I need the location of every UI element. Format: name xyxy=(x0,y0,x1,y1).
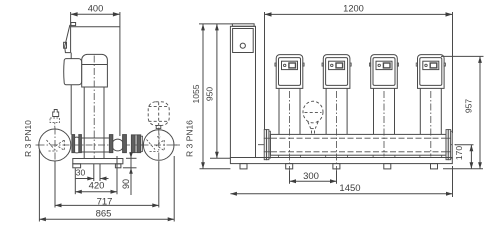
svg-text:865: 865 xyxy=(96,208,112,219)
pump column side view xyxy=(83,87,85,159)
dashed vessel front view xyxy=(303,101,323,134)
dim 30 extensions xyxy=(93,164,95,181)
dim 950 xyxy=(216,24,218,158)
dim 1055 xyxy=(202,24,204,169)
dim 30 xyxy=(75,178,94,180)
dim 1450 right extension xyxy=(452,166,454,197)
dimension 400 line xyxy=(71,13,120,15)
feet xyxy=(240,164,247,169)
suction pipe axis centerline xyxy=(36,144,181,146)
dim 957 extension top xyxy=(441,55,484,57)
ball valve sphere xyxy=(112,139,124,151)
motor M1 side view xyxy=(82,54,108,87)
svg-text:1055: 1055 xyxy=(191,84,201,103)
dashed check valve symbol in right circle xyxy=(147,134,165,152)
svg-text:957: 957 xyxy=(464,99,474,113)
svg-text:300: 300 xyxy=(303,171,319,182)
svg-text:1450: 1450 xyxy=(339,183,360,194)
top extension line to cabinet xyxy=(199,23,232,25)
pump 2 xyxy=(322,55,351,184)
pump 3 xyxy=(369,55,398,158)
dimension 1200 line xyxy=(265,13,453,15)
dim 300 xyxy=(290,180,337,182)
cabinet top plate line xyxy=(71,26,120,28)
control cabinet side view xyxy=(70,12,72,53)
svg-text:1200: 1200 xyxy=(343,4,364,14)
dim 420 xyxy=(75,191,117,193)
base frame front xyxy=(230,158,452,164)
dim 717 xyxy=(55,204,159,206)
cabinet lock circle xyxy=(240,43,245,48)
svg-text:170: 170 xyxy=(454,146,464,160)
svg-text:R 3 PN16: R 3 PN16 xyxy=(184,120,194,157)
floor extension right xyxy=(443,168,483,170)
manifold left end flanges xyxy=(264,130,266,160)
manifold inner bore dashed lines xyxy=(271,137,446,139)
dim 420 extensions xyxy=(74,168,76,194)
base-top extension left xyxy=(210,157,230,159)
dim 865 right extension xyxy=(173,156,175,222)
vessel connector xyxy=(156,126,161,129)
control cabinet front view xyxy=(230,26,255,157)
dim 865 left extension xyxy=(38,150,40,222)
suction flange circle R3 PN10 xyxy=(39,129,71,161)
svg-text:400: 400 xyxy=(88,4,104,14)
svg-text:717: 717 xyxy=(97,196,113,207)
pump centerline xyxy=(93,56,95,159)
floor line segment xyxy=(123,167,137,169)
svg-text:90: 90 xyxy=(121,179,131,189)
dim 170 extension top xyxy=(455,144,474,146)
cabinet mounting pole xyxy=(70,53,72,135)
discharge center extension xyxy=(158,161,160,207)
1200 right extension xyxy=(452,12,454,133)
cabinet knob xyxy=(64,42,67,48)
dim 170 xyxy=(470,145,472,169)
extension line right of 400 xyxy=(119,12,121,136)
manifold body xyxy=(270,134,446,155)
flange set C xyxy=(131,135,135,153)
suction pipe through column xyxy=(81,137,109,139)
manifold axis centerline xyxy=(258,144,457,146)
dim 300 extensions xyxy=(289,171,291,184)
dim 957 xyxy=(479,56,481,168)
suction center extension xyxy=(54,161,56,208)
manifold right end flanges xyxy=(446,130,448,160)
dashed diaphragm vessel above discharge xyxy=(148,102,169,126)
foot left xyxy=(73,164,81,168)
flange pair B xyxy=(109,135,112,153)
svg-text:R 3 PN10: R 3 PN10 xyxy=(23,120,33,157)
dim 1450 xyxy=(230,193,452,195)
foot right xyxy=(115,164,121,168)
dim 865 xyxy=(39,218,174,220)
flange pair A xyxy=(72,135,75,153)
motor terminal box xyxy=(64,59,82,85)
svg-text:30: 30 xyxy=(76,167,86,177)
floor extension left xyxy=(200,168,231,170)
pump 4 xyxy=(416,55,445,158)
dim 90 vertical xyxy=(130,152,132,195)
pressure sensor symbol xyxy=(53,110,59,117)
cabinet mounting pole front xyxy=(264,12,266,158)
dashed check valve symbol in left circle xyxy=(47,140,65,151)
svg-text:420: 420 xyxy=(89,181,105,192)
svg-text:950: 950 xyxy=(204,87,214,101)
base plate side view xyxy=(73,159,123,164)
discharge flange circle R3 PN16 xyxy=(143,130,174,161)
cabinet door xyxy=(233,29,254,53)
pump 1 xyxy=(275,55,304,184)
